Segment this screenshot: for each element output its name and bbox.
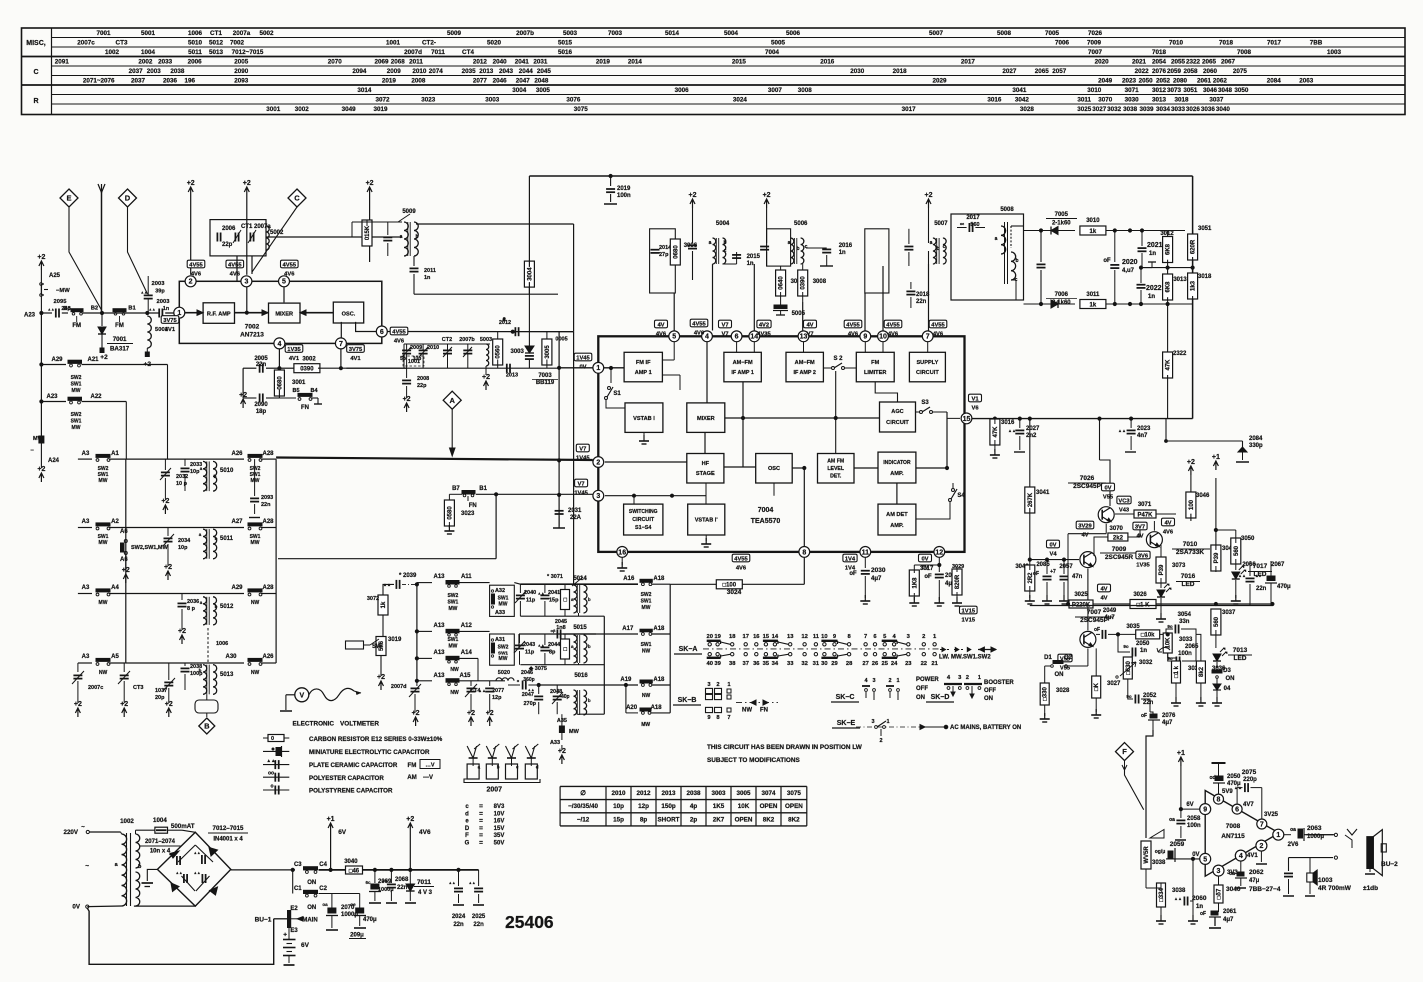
transistor 7010 wiring [1153, 521, 1155, 531]
left bus [77, 459, 79, 527]
svg-text:AM FM: AM FM [827, 459, 844, 465]
wire agc wiring [0, 0, 1, 1]
svg-text:3075: 3075 [574, 106, 589, 113]
svg-text:□46: □46 [349, 868, 360, 874]
wire indicator out [916, 467, 947, 469]
wire speaker src [1345, 835, 1352, 848]
capacitor 2019 100n [609, 174, 612, 177]
svg-text:2012: 2012 [473, 59, 488, 66]
wire mid join [1141, 267, 1193, 269]
svg-text:+2: +2 [1187, 459, 1195, 466]
svg-text:A25: A25 [49, 273, 61, 279]
svg-text:3: 3 [871, 719, 874, 725]
svg-text:VSTAB I': VSTAB I' [695, 518, 719, 524]
supply +2 5007 [926, 199, 931, 208]
svg-text:SK−E: SK−E [837, 720, 856, 727]
svg-text:7006: 7006 [1055, 40, 1070, 47]
svg-text:CT4: CT4 [462, 49, 474, 56]
mid bus [125, 459, 127, 663]
svg-text:▲▲: ▲▲ [193, 851, 200, 855]
wire pin2 hf [605, 461, 687, 463]
svg-text:1002: 1002 [105, 49, 120, 56]
svg-text:3074: 3074 [761, 790, 776, 797]
pin 9 amp [1200, 804, 1211, 815]
svg-text:2007: 2007 [487, 787, 503, 794]
svg-text:A13: A13 [433, 673, 445, 679]
group 5008 box [951, 214, 1024, 300]
svg-text:SW1: SW1 [641, 642, 652, 648]
svg-text:INDICATOR: INDICATOR [883, 460, 911, 466]
pin 3 tea [593, 490, 604, 501]
svg-text:2003: 2003 [147, 68, 162, 75]
wire tuner down [236, 256, 238, 281]
svg-text:MW: MW [99, 600, 108, 606]
svg-text:SK−C: SK−C [836, 694, 855, 701]
svg-text:2015: 2015 [732, 59, 747, 66]
wire mixer net [706, 342, 708, 403]
svg-text:2070: 2070 [328, 59, 343, 66]
resistor 3002 [279, 367, 295, 369]
svg-text:c: c [724, 248, 727, 254]
svg-text:▲c: ▲c [1255, 573, 1262, 578]
svg-text:7026: 7026 [1080, 475, 1095, 482]
svg-text:MW: MW [251, 540, 260, 546]
legend polyester [263, 776, 289, 778]
svg-text:+2: +2 [243, 180, 251, 187]
svg-text:4V: 4V [1100, 587, 1107, 593]
diode 7011 4V3 [409, 868, 412, 871]
svg-text:OSC.: OSC. [342, 312, 356, 318]
svg-text:MW: MW [99, 540, 108, 546]
svg-text:+1: +1 [327, 816, 335, 823]
svg-text:b: b [936, 246, 939, 252]
resistor 3r [561, 639, 570, 659]
svg-text:3003: 3003 [711, 790, 726, 797]
block FM LIMITER [856, 352, 894, 382]
svg-text:3024: 3024 [727, 589, 742, 596]
svg-text:b: b [796, 246, 799, 252]
svg-text:8V3: 8V3 [494, 804, 505, 810]
group 5006 box [767, 229, 791, 266]
svg-text:2003: 2003 [152, 281, 166, 287]
wire 2005 down +2 [242, 368, 244, 395]
block OSC [333, 302, 363, 323]
svg-text:7003: 7003 [608, 30, 623, 37]
svg-text:ON: ON [307, 905, 316, 911]
svg-text:2007a: 2007a [233, 30, 251, 37]
capacitor mid 5008 [1037, 263, 1046, 265]
switch S1 [608, 387, 611, 390]
matrix2 rowC [417, 657, 432, 659]
svg-text:AM DET: AM DET [886, 512, 908, 518]
svg-text:A26: A26 [231, 451, 243, 457]
resistor 3033 [1163, 633, 1172, 653]
svg-text:MW: MW [499, 656, 508, 662]
resistor 3001 [278, 368, 280, 376]
svg-text:NW: NW [450, 667, 459, 673]
svg-text:2SC945P: 2SC945P [1073, 483, 1101, 490]
svg-text:A3: A3 [82, 519, 90, 525]
switch S3 [920, 411, 923, 414]
svg-text:3023: 3023 [421, 97, 436, 104]
capacitor 2036 8p [181, 594, 183, 601]
svg-text:ON: ON [1055, 672, 1064, 678]
svg-text:oF: oF [1033, 571, 1039, 577]
svg-text:2076: 2076 [1152, 68, 1167, 75]
antenna W [101, 192, 103, 313]
svg-text:2085: 2085 [1036, 562, 1050, 568]
svg-text:0V: 0V [1104, 486, 1111, 492]
svg-text:5: 5 [1203, 856, 1207, 863]
diode D4 [1213, 684, 1221, 690]
svg-text:+2: +2 [689, 192, 697, 199]
wire pin11 net [864, 557, 866, 568]
svg-text:MISC,: MISC, [26, 40, 46, 47]
svg-text:a: a [709, 240, 712, 246]
svg-text:470μ: 470μ [1277, 584, 1291, 590]
svg-text:7008: 7008 [1237, 49, 1252, 56]
wire s2 limiter [850, 367, 856, 369]
voltage label pin12 [919, 554, 932, 562]
svg-text:SW1: SW1 [71, 382, 82, 388]
svg-text:SK−A: SK−A [679, 646, 698, 653]
svg-text:LEVEL: LEVEL [827, 466, 845, 472]
svg-text:4V55: 4V55 [734, 557, 748, 563]
svg-text:0680: 0680 [673, 245, 679, 259]
voltage label pin5 [655, 320, 668, 328]
resistor 3032 [1123, 657, 1132, 679]
block MIXER tea [687, 403, 725, 433]
svg-text:oF: oF [1200, 911, 1206, 917]
svg-text:3054: 3054 [1178, 612, 1192, 618]
capacitor 2069 1000u [373, 868, 376, 871]
svg-text:3028: 3028 [1056, 688, 1070, 694]
pin 6 amp [1232, 804, 1242, 814]
supply +2 5006 [764, 199, 769, 208]
svg-text:2SC945R: 2SC945R [1105, 554, 1133, 561]
svg-text:D: D [125, 194, 131, 203]
svg-text:2043: 2043 [523, 642, 535, 648]
bridge rectifier [157, 832, 230, 906]
svg-text:6V: 6V [301, 942, 310, 949]
svg-text:4V55: 4V55 [886, 323, 900, 329]
block RF AMP [203, 303, 234, 324]
wire pin11 up [864, 535, 866, 546]
svg-text:4n7: 4n7 [1137, 433, 1148, 439]
svg-text:2091: 2091 [55, 59, 70, 66]
svg-text:+2: +2 [74, 701, 82, 708]
wire pin3 wire [605, 495, 672, 497]
wire a20 down [645, 728, 647, 736]
svg-text:A15: A15 [459, 673, 471, 679]
svg-text:7001: 7001 [113, 336, 127, 343]
svg-text:A13: A13 [433, 574, 445, 580]
svg-text:NW: NW [251, 600, 260, 606]
svg-text:2003: 2003 [157, 299, 171, 305]
capacitor 2012 series [511, 330, 514, 333]
svg-text:2018: 2018 [893, 68, 908, 75]
matrix2 rowD [417, 680, 432, 682]
svg-text:5V9: 5V9 [1222, 789, 1233, 795]
svg-text:AM−FM: AM−FM [795, 360, 815, 366]
svg-text:7011: 7011 [431, 49, 445, 56]
svg-text:2017: 2017 [961, 59, 976, 66]
label LW MW [940, 649, 975, 651]
svg-text:+: + [283, 932, 287, 939]
svg-text:1001: 1001 [386, 40, 401, 47]
svg-text:3008: 3008 [798, 87, 813, 94]
svg-text:7011: 7011 [417, 879, 431, 886]
voltage label pin11 [843, 554, 857, 562]
svg-text:2021: 2021 [1132, 59, 1147, 66]
svg-text:▲▲: ▲▲ [537, 644, 544, 648]
svg-text:4R 700mW: 4R 700mW [1318, 885, 1352, 892]
capacitor 2046 360p [522, 681, 524, 690]
legend plate ceramic [263, 764, 289, 766]
svg-text:A22: A22 [90, 394, 102, 400]
trimmer 2007b [463, 349, 472, 351]
svg-text:7009: 7009 [1112, 546, 1127, 553]
svg-text:LW. MW.SW1.SW2: LW. MW.SW1.SW2 [939, 655, 991, 661]
svg-text:V7: V7 [721, 323, 728, 329]
pin 5 [279, 276, 290, 287]
switch row A23 A22 [40, 365, 42, 402]
svg-text:FM IF: FM IF [636, 360, 651, 366]
svg-text:AN7213: AN7213 [240, 332, 264, 339]
wire +2 5007 [928, 208, 930, 243]
svg-text:2090: 2090 [234, 68, 249, 75]
svg-text:2084: 2084 [1249, 436, 1263, 442]
svg-text:3007: 3007 [768, 87, 783, 94]
svg-text:2075: 2075 [1242, 769, 1257, 776]
svg-text:V: V [299, 692, 304, 699]
svg-text:3033: 3033 [1171, 106, 1186, 113]
svg-text:7004: 7004 [758, 507, 774, 514]
svg-text:A29: A29 [231, 585, 243, 591]
svg-text:2076: 2076 [1162, 713, 1176, 719]
svg-text:+2: +2 [120, 701, 128, 708]
svg-text:2030: 2030 [871, 567, 886, 574]
svg-text:500mAT: 500mAT [171, 823, 195, 830]
svg-text:MW: MW [99, 478, 108, 484]
wire b2 [83, 312, 161, 314]
svg-text:3030: 3030 [1125, 97, 1140, 104]
svg-text:2k2: 2k2 [1113, 535, 1124, 541]
svg-text:5010: 5010 [188, 40, 203, 47]
svg-text:3037: 3037 [1222, 610, 1236, 616]
svg-text:3041: 3041 [1036, 490, 1050, 496]
capacitor 5007g [904, 246, 913, 248]
svg-text:P47K: P47K [1137, 512, 1153, 518]
voltage label pin10 [884, 320, 902, 328]
wire indicator down [896, 483, 898, 504]
svg-text:2027: 2027 [1002, 68, 1017, 75]
svg-text:OFF: OFF [984, 688, 996, 694]
svg-text:~: ~ [85, 863, 89, 870]
svg-text:DET.: DET. [830, 474, 842, 480]
svg-text:196: 196 [184, 78, 195, 85]
svg-text:2065: 2065 [1185, 644, 1199, 650]
svg-text:AMP.: AMP. [890, 523, 904, 529]
led 7017 [1232, 572, 1240, 579]
svg-text:2011: 2011 [409, 59, 423, 66]
svg-text:d: d [536, 765, 539, 770]
svg-text:2059: 2059 [1170, 841, 1185, 848]
wire pin5 mixer [283, 287, 285, 303]
svg-text:1V15: 1V15 [962, 618, 976, 624]
svg-text:□K: □K [1094, 682, 1100, 691]
svg-text:2322: 2322 [1186, 59, 1201, 66]
wire from C [252, 207, 297, 272]
svg-text:4V55: 4V55 [846, 323, 860, 329]
pin 6 tea [731, 331, 742, 342]
svg-text:1n: 1n [424, 275, 431, 281]
svg-text:1n: 1n [163, 306, 170, 312]
svg-text:ELECTRONIC: ELECTRONIC [293, 721, 335, 728]
svg-text:B1: B1 [128, 306, 136, 312]
transformer 5013 [203, 665, 207, 695]
wire input [41, 312, 52, 314]
svg-text:37: 37 [742, 661, 748, 667]
svg-text:a: a [400, 234, 403, 240]
svg-text:11p: 11p [526, 598, 536, 604]
svg-text:0: 0 [271, 736, 274, 742]
wire mid rail [1047, 605, 1272, 607]
svg-text:VSTAB I: VSTAB I [633, 416, 655, 422]
svg-text:4p: 4p [690, 803, 698, 810]
svg-text:3: 3 [872, 678, 875, 684]
svg-text:3019: 3019 [373, 106, 388, 113]
svg-text:AC MAINS, BATTERY ON: AC MAINS, BATTERY ON [950, 725, 1021, 731]
svg-text:3025: 3025 [1077, 106, 1092, 113]
svg-text:MW: MW [448, 606, 457, 612]
svg-text:6: 6 [1235, 807, 1239, 814]
svg-text:2062: 2062 [1249, 869, 1264, 876]
svg-text:b: b [215, 604, 218, 609]
svg-text:12: 12 [935, 549, 943, 556]
block AM-FM IF AMP2 [786, 352, 823, 382]
svg-text:4V55: 4V55 [931, 323, 945, 329]
wire pin12 net [938, 557, 940, 572]
svg-text:16V: 16V [494, 819, 505, 825]
voltage label pin9 [844, 320, 862, 328]
svg-text:2013: 2013 [479, 68, 494, 75]
svg-text:□: □ [563, 647, 569, 651]
svg-text:33n: 33n [1179, 619, 1190, 625]
svg-text:2063: 2063 [1307, 825, 1322, 832]
trimmer CT3 [123, 663, 125, 672]
svg-text:3040: 3040 [1226, 886, 1241, 893]
gang capacitor 2007 [467, 744, 480, 758]
voltage label pin13 [804, 320, 817, 328]
svg-text:5014: 5014 [665, 30, 680, 37]
svg-text:2063: 2063 [1299, 78, 1314, 85]
svg-text:2071~2076: 2071~2076 [83, 78, 115, 85]
svg-text:29: 29 [831, 661, 838, 667]
wire osc top sub [404, 343, 490, 345]
svg-text:1: 1 [1276, 832, 1280, 839]
svg-text:22n: 22n [256, 362, 267, 368]
matrix2 rowB [417, 630, 432, 632]
svg-text:S3: S3 [921, 400, 929, 406]
svg-text:ON: ON [307, 880, 316, 886]
svg-text:2057: 2057 [1059, 564, 1073, 570]
wire fmif b [662, 374, 680, 376]
svg-text:V43: V43 [1119, 508, 1130, 514]
svg-text:2019: 2019 [596, 59, 611, 66]
svg-text:2037: 2037 [131, 78, 146, 85]
svg-text:5002: 5002 [259, 30, 274, 37]
svg-text:A6: A6 [120, 529, 128, 535]
svg-text:3073: 3073 [1172, 563, 1186, 569]
svg-text:1n: 1n [839, 250, 846, 256]
svg-text:=: = [479, 825, 483, 832]
svg-text:* 2039: * 2039 [399, 573, 417, 579]
svg-text:CT1: CT1 [210, 30, 222, 37]
supply +1 amp [1178, 757, 1183, 766]
svg-text:V1: V1 [971, 397, 979, 403]
svg-text:3048: 3048 [1218, 87, 1233, 94]
svg-text:5003: 5003 [480, 337, 492, 343]
block OSC tea [756, 454, 793, 484]
svg-text:b: b [1015, 258, 1018, 264]
svg-text:+2: +2 [486, 710, 494, 717]
svg-text:2049: 2049 [1103, 608, 1117, 614]
supply +2 5004 [690, 199, 695, 208]
block INDICATOR AMP [878, 452, 916, 483]
supply +2 c [367, 187, 372, 196]
svg-text:4V35: 4V35 [757, 332, 771, 338]
svg-text:+2: +2 [37, 466, 45, 473]
svg-text:▲▲: ▲▲ [168, 852, 175, 856]
svg-text:7: 7 [864, 634, 867, 640]
svg-text:10: 10 [879, 334, 887, 341]
core 1006 [207, 628, 209, 662]
wire OSC to MIXER [300, 312, 333, 314]
svg-text:7: 7 [926, 334, 930, 341]
svg-text:1006: 1006 [188, 30, 203, 37]
capacitor 2084 330p [1165, 419, 1167, 441]
wire 5007 down [928, 264, 930, 331]
svg-text:4: 4 [277, 341, 281, 348]
svg-text:3026: 3026 [1186, 106, 1201, 113]
transistor 7009 [1080, 552, 1096, 568]
svg-text:820R: 820R [955, 574, 961, 589]
svg-text:2093: 2093 [261, 495, 273, 501]
capacitor 2044 8p [540, 646, 549, 648]
svg-text:6: 6 [380, 329, 384, 336]
trimmer 2043 11p [519, 634, 521, 643]
svg-text:4V6: 4V6 [933, 332, 944, 338]
capacitor 2022 1n [1137, 284, 1146, 286]
svg-text:E3: E3 [290, 928, 298, 934]
wire 5009 bottom [413, 256, 415, 266]
svg-text:BB119: BB119 [536, 380, 555, 386]
svg-text:2040: 2040 [493, 59, 508, 66]
led 7013 [1213, 654, 1221, 661]
svg-text:5012: 5012 [220, 604, 234, 610]
svg-text:2036: 2036 [163, 78, 178, 85]
svg-text:2020: 2020 [1095, 59, 1110, 66]
svg-text:2046: 2046 [521, 670, 533, 676]
svg-text:2068: 2068 [391, 59, 406, 66]
svg-text:A6: A6 [120, 557, 128, 563]
wire ifamp1 down [742, 382, 744, 467]
svg-text:2: 2 [596, 459, 600, 466]
svg-text:b: b [214, 474, 217, 479]
coil 5002 [266, 226, 269, 250]
svg-text:□δ7: □δ7 [1217, 888, 1223, 899]
